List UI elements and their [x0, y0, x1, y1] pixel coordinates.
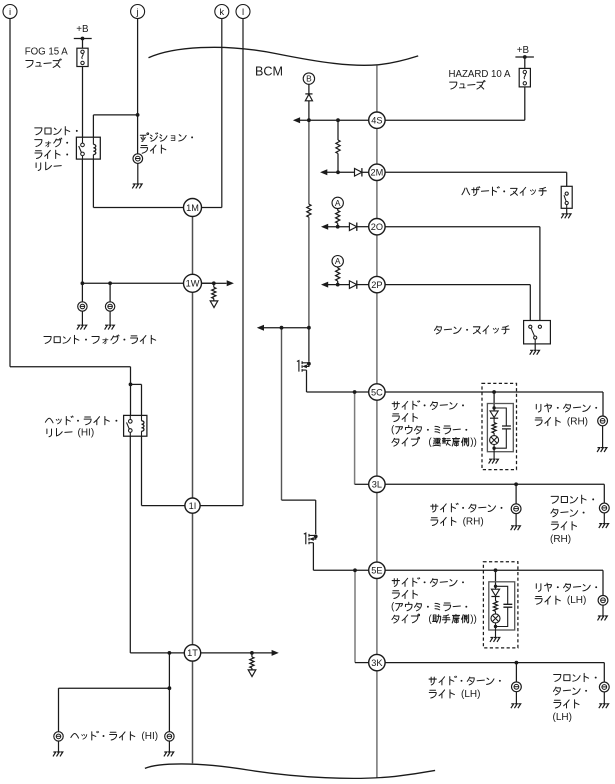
wire diode to 2P — [357, 284, 369, 286]
svg-text:+B: +B — [517, 45, 530, 56]
wire into side turn module LH — [495, 570, 497, 586]
wire position light to ground — [137, 163, 139, 184]
open arrow below 1W stub — [210, 301, 218, 308]
module inner box — [489, 582, 515, 630]
ground (turn switch) — [530, 350, 540, 354]
junction +B hazard — [523, 55, 527, 59]
ground (module) — [489, 459, 499, 463]
svg-text:1W: 1W — [186, 279, 200, 289]
lamp (front turn light RH) — [599, 503, 609, 513]
wire junction to coil branch — [131, 383, 142, 385]
junction resistor / 2M row — [336, 170, 340, 174]
wire 2M output row — [327, 171, 355, 173]
wire 3K to front turn light LH — [385, 662, 604, 664]
label rear turn LH line2 — [535, 595, 586, 606]
wire from terminal j to position light — [137, 19, 139, 154]
ground (front turn LH) — [599, 704, 609, 708]
wire FET1 source down — [306, 370, 308, 392]
resistor at 1W stub — [212, 287, 216, 298]
label side turn RH mirror line2 — [392, 413, 417, 421]
wire 2M to 2O — [376, 181, 378, 219]
wire 2P to turn switch — [385, 284, 530, 286]
resistor below A (2P) — [336, 268, 340, 281]
label side turn RH line1 — [431, 503, 503, 512]
wire rear turn RH to ground — [602, 426, 604, 448]
junction headlight lamps — [168, 686, 172, 690]
junction module top — [492, 406, 495, 409]
label rear turn LH line1 — [536, 583, 597, 591]
svg-text:i: i — [9, 7, 11, 18]
wire to node 3K — [355, 662, 369, 664]
wire k to node 1M — [202, 207, 222, 209]
lamp (rear turn light RH) — [598, 416, 608, 426]
wire B-line down — [308, 120, 310, 204]
wire 4S to hazard fuse — [385, 119, 525, 121]
svg-text:5E: 5E — [371, 566, 382, 576]
junction drive row — [280, 326, 284, 330]
wire down to turn switch left contact — [529, 285, 531, 321]
wire headlight lamp2 to ground — [168, 741, 170, 752]
wire 5C to 3L — [376, 400, 378, 476]
wire down to fog relay coil — [92, 115, 94, 137]
label fuse (hazard) — [450, 80, 485, 89]
wire 1W to 1I — [192, 292, 194, 498]
wire 4S output row — [300, 119, 369, 121]
+B feed bar hazard — [515, 56, 534, 58]
module wire — [495, 611, 497, 614]
lamp (headlight HI left) — [54, 732, 63, 741]
wire 2O to turn switch — [385, 226, 540, 228]
ground (front turn RH) — [599, 524, 609, 528]
wire FET1 to node 5C — [307, 391, 369, 393]
node terminal B — [303, 73, 314, 84]
label front turn RH line3 — [551, 522, 576, 530]
label turn switch — [434, 326, 509, 334]
label side turn RH mirror line4 — [392, 437, 477, 448]
wire down to left headlight lamp — [58, 688, 60, 731]
junction fog lamp 1 — [81, 281, 85, 285]
wire 2O output row — [328, 226, 350, 228]
label hazard switch — [462, 187, 546, 196]
module capacitor — [502, 426, 511, 429]
wire to relay coil — [141, 384, 143, 415]
ground (side turn LH) — [511, 704, 521, 708]
wire 4S row to resistor — [337, 120, 339, 140]
wire 1T to BCM edge — [192, 661, 194, 763]
wire fog lamp1 to ground — [81, 311, 83, 325]
svg-text:(HI): (HI) — [141, 731, 158, 742]
junction module RH — [492, 390, 496, 394]
wire diode to 4S row — [308, 101, 310, 121]
junction resistor / 4S row — [336, 118, 340, 122]
junction headlight relay feed — [129, 383, 133, 387]
side turn light module RH (dashed module box) — [482, 383, 517, 469]
lamp (side turn light RH) — [511, 504, 521, 514]
ground (side turn RH) — [511, 526, 521, 530]
svg-text:(RH): (RH) — [463, 516, 484, 527]
label front turn LH line2 — [553, 687, 587, 695]
junction 1W stub — [212, 281, 216, 285]
wire hazard fuse down — [524, 87, 526, 120]
ground (fog lamp 1) — [77, 325, 87, 329]
junction module bottom — [494, 625, 497, 628]
relay (headlight relay HI) — [124, 415, 147, 436]
side turn light module LH (dashed module box) — [483, 562, 518, 648]
wire FET gate drive row — [264, 327, 309, 329]
module wire — [493, 433, 495, 436]
ground (rear turn LH) — [598, 616, 608, 620]
arrow out of 4S — [293, 117, 300, 123]
module ground wire — [493, 448, 495, 459]
lamp (front fog light right) — [105, 302, 114, 311]
node terminal l — [236, 5, 250, 19]
wire resistor to 2M row — [337, 154, 339, 173]
label front turn LH line3 — [554, 700, 579, 708]
resistor on B-line — [307, 204, 311, 217]
svg-text:l: l — [242, 7, 244, 18]
module wires to capacitor — [496, 586, 508, 626]
wire terminal B to diode — [308, 84, 310, 94]
wire headlight lamp1 to ground — [58, 741, 60, 752]
wire 5C to rear turn light RH — [385, 391, 603, 393]
label headlight relay line2 — [47, 427, 94, 438]
module lamp — [491, 614, 500, 623]
node 1M — [184, 199, 202, 217]
label side turn LH mirror line3 — [391, 602, 467, 613]
wire 2P to 5C — [376, 293, 378, 384]
resistor at 1T stub — [250, 657, 254, 668]
wire 2M to hazard switch — [385, 171, 567, 173]
wire into side turn module RH — [493, 392, 495, 408]
wire 1T row to headlight lamp — [168, 653, 170, 732]
wire 5E to 3K — [376, 579, 378, 655]
svg-text:)): )) — [470, 437, 477, 448]
wire headlight relay switch to 1T row — [129, 436, 131, 653]
junction 5E row — [353, 568, 357, 572]
wire to fog lamp 2 — [109, 283, 111, 302]
arrow out of drive row — [257, 325, 264, 331]
wire from terminal k — [221, 19, 223, 208]
lamp (position light) — [133, 154, 143, 164]
wire l to node 1I — [200, 505, 243, 507]
svg-text:j: j — [136, 7, 139, 18]
wire node 1W output — [214, 282, 227, 284]
label fuse (fog) — [26, 59, 61, 68]
arrow out of 2M row — [320, 169, 327, 175]
label front turn LH line1 — [554, 673, 597, 681]
wire side turn LH to ground — [515, 692, 517, 704]
label headlight relay line1 — [45, 416, 117, 425]
wire 5E row to 3K row — [354, 570, 356, 662]
node terminal j — [131, 5, 145, 19]
node 1I — [185, 498, 200, 513]
node 4S — [369, 112, 385, 128]
wire down to junction — [130, 367, 132, 385]
diode into 2O — [349, 223, 356, 231]
svg-text:2P: 2P — [371, 280, 382, 290]
diode into 2M — [355, 168, 362, 176]
wire down to front turn light LH — [603, 663, 605, 683]
junction drive row B-line — [307, 326, 311, 330]
wire A to resistor 2P — [337, 267, 339, 268]
svg-text:3K: 3K — [371, 658, 383, 668]
label front turn RH line2 — [551, 509, 585, 517]
module wires to capacitor — [494, 408, 506, 448]
node 1T — [184, 645, 200, 661]
node 1W — [184, 274, 202, 292]
label side turn LH line1 — [429, 676, 501, 685]
wire 2P output row — [328, 284, 350, 286]
wire from terminal i down — [9, 19, 11, 367]
svg-text:A: A — [335, 198, 341, 208]
diode below terminal B — [305, 94, 312, 101]
svg-text:2M: 2M — [371, 168, 384, 178]
junction 1T row — [168, 651, 172, 655]
wire down to front turn light RH — [603, 484, 605, 503]
module LED — [490, 408, 498, 423]
module lamp — [490, 436, 499, 445]
module resistor — [493, 601, 497, 611]
junction fog lamp 2 — [108, 281, 112, 285]
node 2O — [369, 219, 385, 235]
wire BCM edge to 4S — [376, 66, 378, 112]
module ground wire — [495, 627, 497, 638]
wire — [213, 283, 215, 287]
wire — [251, 668, 253, 670]
wire to node 1M — [93, 207, 183, 209]
label side turn LH mirror line4 — [392, 614, 477, 625]
wire down to FET2 drain — [315, 500, 317, 534]
svg-text:5C: 5C — [371, 387, 383, 397]
svg-text:4S: 4S — [371, 116, 382, 126]
wire fog lamp2 to ground — [109, 311, 111, 325]
wire — [213, 299, 215, 301]
wire relay switch to fog lamp — [81, 159, 83, 302]
label front fog relay line2 — [35, 138, 68, 147]
node terminal k — [215, 5, 229, 19]
junction A resistor / 2P row — [336, 283, 340, 287]
lamp (headlight HI right) — [165, 732, 174, 741]
junction module bottom — [492, 447, 495, 450]
switch (hazard switch) — [561, 186, 572, 208]
lamp (front turn light LH) — [599, 682, 609, 692]
svg-text:(RH): (RH) — [550, 534, 571, 545]
junction module LH — [494, 568, 498, 572]
wire — [251, 653, 253, 657]
wire down to side turn light LH — [515, 663, 517, 682]
svg-text:2O: 2O — [371, 222, 383, 232]
svg-text:BCM: BCM — [255, 65, 283, 79]
wire rear turn LH to ground — [602, 605, 604, 616]
transistor Q2 (turn output driver) — [304, 533, 316, 544]
ground (module) — [490, 638, 500, 642]
junction A resistor / 2O row — [336, 225, 340, 229]
junction +B fog — [81, 37, 85, 41]
junction 1T stub — [250, 651, 254, 655]
wire terminal i to headlight relay — [10, 366, 131, 368]
ground (hazard switch) — [561, 214, 571, 218]
svg-text:B: B — [306, 74, 312, 84]
node 5E — [369, 562, 385, 578]
+B feed bar — [74, 38, 92, 40]
wire diode to 2O — [357, 226, 369, 228]
wire drive branch down to FET2 — [281, 328, 283, 500]
junction side turn RH — [514, 482, 518, 486]
wire 5E to rear turn light LH — [385, 569, 603, 571]
open arrow below 1T stub — [248, 670, 256, 677]
junction module top — [494, 585, 497, 588]
wire from terminal l — [242, 19, 244, 506]
label side turn RH mirror line1 — [392, 401, 464, 410]
module inner box — [487, 404, 513, 452]
resistor below A (2O) — [336, 211, 340, 224]
arrow out of 2O row — [321, 224, 328, 230]
svg-text:FOG 15 A: FOG 15 A — [25, 47, 69, 58]
label side turn RH mirror line3 — [391, 425, 467, 436]
junction B line / 4S row — [307, 118, 311, 122]
svg-text:1M: 1M — [186, 203, 199, 213]
module LED — [491, 586, 499, 601]
svg-text:3L: 3L — [372, 480, 382, 490]
arrow out of 2P row — [321, 282, 328, 288]
wire +B to fog fuse — [82, 39, 84, 49]
wire side turn RH to ground — [515, 514, 517, 526]
fog relay coil — [93, 144, 95, 154]
svg-text:(LH): (LH) — [553, 712, 572, 723]
wire diode to 2M — [362, 171, 369, 173]
wire to FET2 drain — [282, 499, 316, 501]
switch (turn switch) — [524, 321, 551, 344]
label front turn RH line1 — [551, 495, 594, 503]
wire headlight relay coil down — [141, 436, 143, 505]
node 5C — [369, 384, 385, 400]
wire down to turn switch right contact — [539, 227, 541, 321]
svg-text:HAZARD 10 A: HAZARD 10 A — [449, 69, 511, 80]
wire down to rear turn light LH — [602, 570, 604, 595]
ground (fog lamp 2) — [105, 325, 115, 329]
relay (front fog light relay) — [76, 137, 100, 159]
wire 3L to 5E — [376, 493, 378, 563]
wire B-line to FET row — [308, 217, 310, 328]
lamp (front fog light left) — [78, 302, 87, 311]
arrow out of 1T — [272, 650, 279, 656]
svg-text:k: k — [219, 7, 224, 18]
wire 1W to stub — [193, 282, 214, 284]
wire front turn RH to ground — [603, 513, 605, 524]
svg-text:1T: 1T — [187, 648, 198, 658]
label headlight HI — [71, 731, 158, 742]
wire down to FET1 drain — [308, 328, 310, 362]
wire FET2 to node 5E — [313, 569, 368, 571]
headlight relay coil — [142, 421, 144, 431]
label front fog relay line3 — [35, 150, 68, 158]
svg-text:(RH): (RH) — [567, 417, 588, 428]
wire down to side turn light RH — [515, 484, 517, 504]
wire hazard switch to ground — [566, 208, 568, 214]
arrow out of 1W — [227, 280, 234, 286]
label front fog relay line4 — [36, 162, 61, 170]
ground (headlight 1) — [53, 752, 63, 756]
ground (rear turn RH) — [597, 448, 607, 452]
svg-text:(HI): (HI) — [78, 427, 95, 438]
node terminal A (2P) — [332, 256, 343, 267]
label rear turn RH line2 — [535, 417, 588, 428]
junction FET1 drain — [307, 362, 311, 366]
BCM boundary bottom — [145, 764, 435, 778]
wire 1T output stub — [201, 652, 272, 654]
label side turn RH line2 — [431, 516, 484, 527]
wire relay coil to 1M row — [92, 159, 94, 207]
wire 2O to 2P — [376, 235, 378, 277]
label rear turn RH line1 — [536, 404, 597, 412]
wire j-line to fog relay coil — [93, 114, 137, 116]
lamp (side turn light LH) — [512, 682, 522, 692]
module capacitor — [503, 604, 512, 607]
junction FET2 drain — [314, 535, 318, 539]
junction 5C row — [353, 390, 357, 394]
label front turn LH line4 — [553, 712, 572, 723]
svg-text:1I: 1I — [189, 501, 197, 511]
wire resistor to 2P row — [337, 281, 339, 285]
svg-text:(LH): (LH) — [567, 595, 586, 606]
wire to node 1T — [130, 652, 184, 654]
node 2M — [369, 164, 385, 180]
wire relay coil to node 1I — [142, 505, 186, 507]
wire 1M to 1W — [192, 217, 194, 275]
wire to relay switch — [130, 384, 132, 415]
wire down to rear turn light RH — [602, 392, 604, 416]
fuse HAZARD 10A — [519, 68, 530, 87]
label front fog light — [44, 335, 156, 344]
node 3L — [369, 476, 385, 492]
wire fog fuse to relay switch — [82, 67, 84, 138]
wire 3L to front turn light RH — [385, 483, 604, 485]
node terminal A (2O) — [332, 197, 343, 208]
label position light line2 — [141, 145, 166, 153]
svg-text:+B: +B — [76, 24, 89, 35]
transistor Q1 (turn output driver) — [297, 361, 309, 372]
wire 3K to BCM bottom edge — [376, 671, 378, 778]
label side turn LH mirror line1 — [392, 578, 464, 587]
svg-text:(LH): (LH) — [461, 689, 480, 700]
BCM boundary top — [149, 47, 419, 65]
svg-text:)): )) — [470, 614, 477, 625]
label front turn RH line4 — [550, 534, 571, 545]
label position light line1 — [140, 133, 193, 142]
wire front turn LH to ground — [603, 692, 605, 704]
label front fog relay line1 — [35, 127, 78, 135]
wire FET2 source down — [312, 543, 314, 571]
wire branch to left headlight lamp — [59, 687, 170, 689]
junction side turn LH — [515, 661, 519, 665]
fuse FOG 15A — [77, 48, 88, 66]
ground (headlight 2) — [164, 752, 174, 756]
wire 1I to 1T — [192, 513, 194, 645]
junction j-line / relay coil — [136, 113, 140, 117]
node 3K — [369, 654, 385, 670]
wire +B to hazard fuse — [524, 57, 526, 68]
resistor between 4S and 2M rows — [336, 140, 340, 154]
wire 5C row to 3L row — [354, 392, 356, 484]
ground (position light) — [132, 184, 142, 188]
svg-text:A: A — [335, 256, 341, 266]
wire turn switch to ground — [534, 344, 536, 350]
wire A to resistor — [337, 209, 339, 211]
label side turn LH line2 — [429, 689, 480, 700]
label side turn LH mirror line2 — [392, 590, 417, 598]
module resistor — [492, 423, 496, 433]
wire to node 3L — [355, 483, 369, 485]
